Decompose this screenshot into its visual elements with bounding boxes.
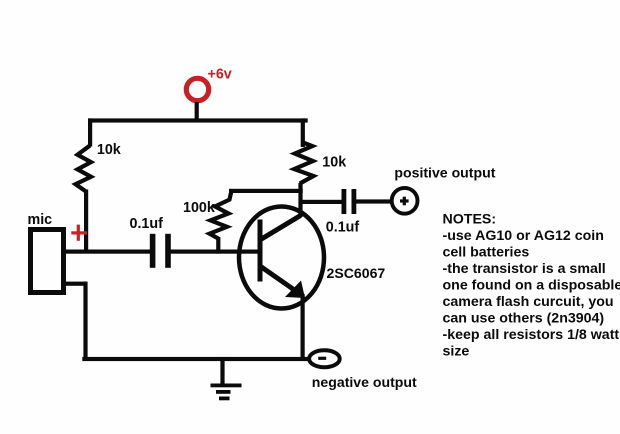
wire feedback horizontal: [229, 189, 303, 193]
svg-text:negative output: negative output: [312, 374, 417, 390]
svg-text:-keep all resistors 1/8 watt: -keep all resistors 1/8 watt: [443, 327, 620, 343]
wire supply stem: [195, 102, 199, 122]
ground symbol: [211, 384, 242, 388]
wire collector vertical: [298, 183, 302, 217]
svg-text:positive output: positive output: [394, 165, 495, 181]
resistor R3 10k right: [294, 142, 313, 184]
svg-text:NOTES:: NOTES:: [443, 212, 497, 228]
wire right branch upper: [301, 118, 305, 147]
wire capacitor to base: [170, 250, 258, 254]
positive output terminal: [392, 188, 418, 214]
capacitor C2 0.1uf: [342, 189, 347, 214]
node red plus (mic positive): [71, 225, 87, 241]
transistor Q1 base bar: [258, 220, 263, 282]
wire collector to output cap: [299, 200, 344, 204]
transistor Q1 emitter arrow: [285, 281, 305, 299]
svg-text:-use AG10 or AG12 coin: -use AG10 or AG12 coin: [443, 228, 604, 244]
transistor Q1 emitter diagonal: [260, 266, 303, 296]
svg-text:0.1uf: 0.1uf: [130, 216, 164, 232]
wire top bus: [88, 118, 308, 122]
svg-text:size: size: [443, 344, 470, 360]
wire left branch lower: [84, 190, 88, 254]
negative output terminal: [309, 350, 340, 367]
supply symbol +6v: [186, 78, 208, 100]
svg-text:one found on a disposable: one found on a disposable: [443, 278, 620, 294]
svg-text:10k: 10k: [97, 142, 121, 158]
wire mic negative vertical: [83, 282, 87, 361]
svg-text:+6v: +6v: [208, 67, 232, 83]
mic element: [31, 230, 64, 293]
svg-text:2SC6067: 2SC6067: [327, 265, 386, 281]
resistor R2 100k (feedback): [210, 191, 232, 239]
transistor Q1 collector diagonal: [259, 216, 301, 241]
svg-text:can use others (2n3904): can use others (2n3904): [443, 311, 605, 327]
transistor Q1 body: [239, 207, 324, 309]
wire left branch upper: [88, 118, 92, 146]
wire mic to capacitor (base wire left): [63, 250, 150, 254]
ground stem: [220, 358, 224, 386]
svg-text:-the transistor is a small: -the transistor is a small: [443, 261, 606, 277]
resistor R1 10k left: [76, 146, 92, 192]
svg-text:cell batteries: cell batteries: [443, 245, 530, 261]
capacitor C1 0.1uf: [150, 234, 156, 268]
wire bottom bus: [82, 357, 308, 361]
wire cap to positive output: [356, 199, 392, 203]
svg-text:camera flash curcuit, you: camera flash curcuit, you: [443, 294, 614, 310]
svg-text:mic: mic: [28, 212, 53, 228]
wire mic negative stub: [63, 282, 87, 286]
svg-text:10k: 10k: [322, 155, 346, 171]
wire 100k to base wire: [216, 237, 220, 254]
notes text block: [443, 212, 620, 360]
wire emitter vertical: [301, 294, 305, 361]
svg-text:100k: 100k: [183, 200, 215, 216]
svg-text:0.1uf: 0.1uf: [326, 219, 360, 235]
